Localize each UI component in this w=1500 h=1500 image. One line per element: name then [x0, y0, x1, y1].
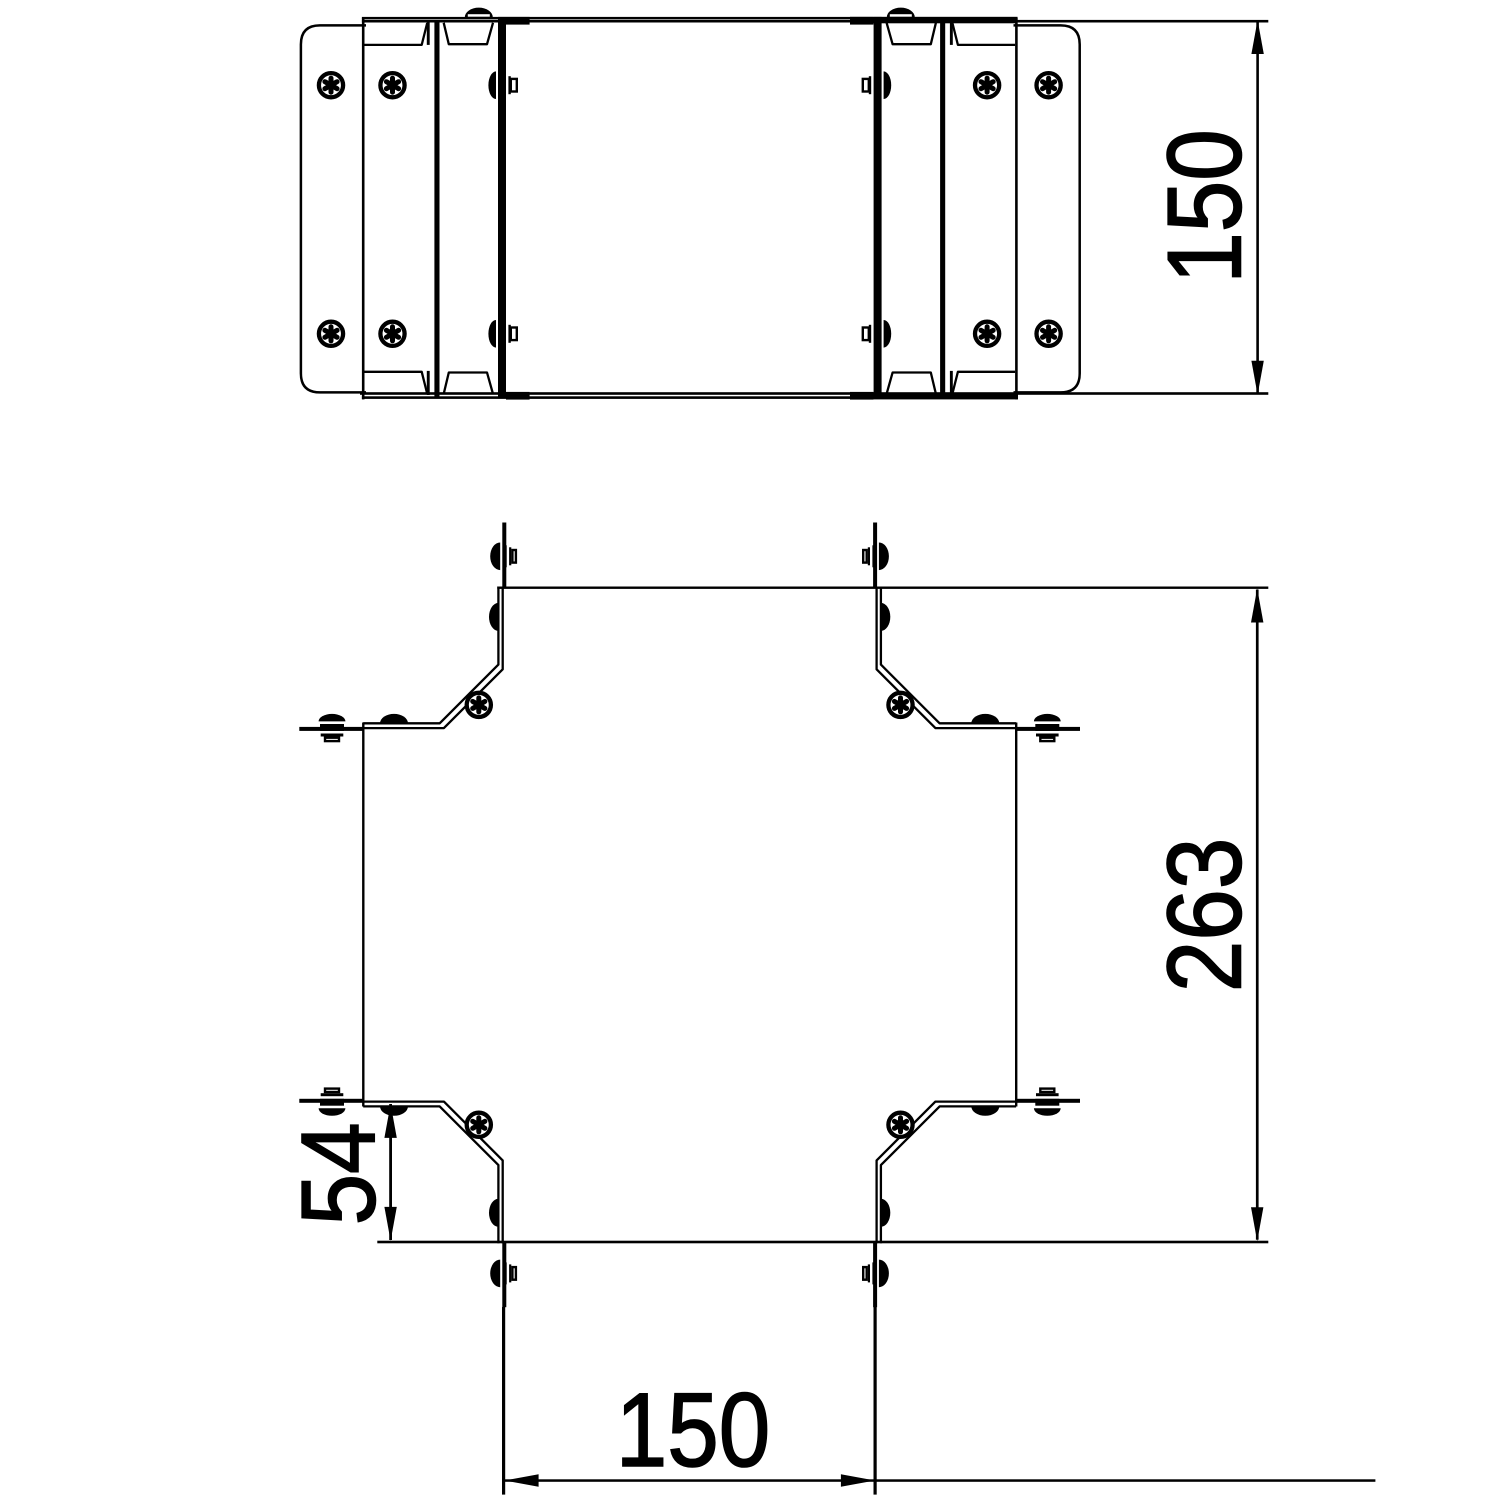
turnbuckle stem bottom-left	[502, 1242, 506, 1308]
bolt dome right arm south	[971, 1106, 999, 1115]
coupler plate left edge	[362, 18, 365, 400]
bottom tab left of right wall	[850, 392, 873, 400]
turnbuckle head left-bottom	[319, 1089, 346, 1116]
bolt dome on top edge right	[887, 8, 915, 18]
turnbuckle head right wall bottom	[863, 320, 891, 348]
bolt dome top arm west	[489, 603, 498, 631]
dim 54: arrow up	[384, 1104, 396, 1138]
cover bottom edge upper line + dim extension	[360, 392, 1268, 395]
bolt dome top arm east	[881, 603, 890, 631]
dim 263: dimension line	[1256, 590, 1259, 1240]
top tab right of left wall	[506, 17, 530, 25]
torx screw plate1 right bottom	[1037, 322, 1061, 346]
turnbuckle stem left-bottom	[299, 1099, 364, 1103]
dim 54: arrow down	[384, 1207, 396, 1241]
tray side wall right (thick bar)	[874, 17, 882, 397]
dim 150 bottom: dimension line	[504, 1479, 1375, 1482]
dim 263: arrow up	[1251, 589, 1263, 623]
turnbuckle head bottom-right	[863, 1260, 889, 1288]
cross top edge + dim extension	[497, 587, 1268, 589]
svg-text:150: 150	[616, 1372, 771, 1488]
junction fold line right bottom	[950, 371, 953, 395]
fold profile bottom-right outer	[881, 1106, 1016, 1243]
fold profile top-left outer	[363, 587, 498, 724]
turnbuckle stem bottom-right	[873, 1242, 877, 1308]
cross bottom edge + dim extensions	[377, 1241, 1268, 1244]
notch outline plate3 right top	[887, 23, 936, 44]
dim 150 bottom: extension line right	[874, 1307, 877, 1495]
turnbuckle head left-top	[319, 714, 346, 741]
torx screw plate2 left bottom	[380, 322, 404, 346]
dim 150 bottom: arrow left	[505, 1474, 539, 1487]
dim 150 bottom: arrow right	[841, 1474, 875, 1487]
svg-text:150: 150	[1146, 129, 1262, 284]
turnbuckle stem left-top	[299, 727, 364, 731]
dim 150 side: dimension line	[1256, 21, 1259, 394]
bolt dome bottom arm east	[881, 1199, 890, 1227]
tray side wall left (thick bar)	[498, 17, 506, 397]
fold profile bottom-left inner	[363, 1102, 503, 1244]
side plate left outer (rounded)	[301, 25, 366, 392]
merged bottom edge band right	[850, 393, 1018, 400]
turnbuckle stem right-top	[1016, 727, 1080, 731]
cover bottom edge lower line	[362, 396, 1018, 399]
fold profile top-right outer	[881, 587, 1016, 724]
dim 54: dimension line	[389, 1104, 392, 1240]
cover top edge upper line	[362, 17, 1018, 19]
junction fold line left top	[427, 21, 430, 45]
junction fold line left bottom	[427, 371, 430, 395]
bolt dome left arm south	[380, 1106, 408, 1115]
bolt dome on top edge left	[465, 8, 493, 18]
turnbuckle head left wall bottom	[488, 320, 516, 348]
dim 150 bottom: extension line left	[502, 1307, 505, 1495]
cross right tip edge	[1015, 723, 1017, 1107]
turnbuckle head bottom-left	[490, 1260, 516, 1288]
turnbuckle head right-top	[1034, 714, 1061, 741]
torx screw plate2 left top	[380, 73, 404, 97]
fold profile bottom-left outer	[363, 1106, 498, 1243]
top tab left of right wall	[850, 17, 873, 25]
torx screw plate2 right top	[975, 73, 999, 97]
notch outline plate3 left bottom	[444, 373, 493, 394]
torx screw corner bottom-left	[467, 1113, 491, 1137]
fold profile top-left inner	[363, 587, 503, 729]
turnbuckle head left wall top	[488, 71, 516, 99]
bolt dome left arm north	[380, 714, 408, 723]
notch outline plate3 right bottom	[887, 373, 936, 394]
notch outline plate2 right top	[952, 23, 1015, 45]
dim 150 side: arrow down	[1251, 361, 1263, 395]
merged top edge band right	[850, 17, 1018, 23]
turnbuckle head right wall top	[863, 71, 891, 99]
turnbuckle head top-right	[863, 543, 889, 571]
torx screw corner top-left	[467, 693, 491, 717]
svg-text:54: 54	[280, 1122, 396, 1225]
plate fold edge left (thick)	[434, 20, 439, 397]
notch outline plate2 left top	[365, 23, 428, 45]
svg-text:263: 263	[1146, 838, 1262, 993]
turnbuckle stem right-bottom	[1016, 1099, 1080, 1103]
side plate right outer (rounded)	[1014, 25, 1080, 392]
notch outline plate2 right bottom	[952, 372, 1015, 394]
torx screw corner top-right	[888, 693, 912, 717]
turnbuckle stem top-left	[502, 523, 506, 589]
torx screw plate1 right top	[1037, 73, 1061, 97]
torx screw plate1 left bottom	[319, 322, 343, 346]
turnbuckle head top-left	[490, 543, 516, 571]
dim 263: arrow down	[1251, 1207, 1263, 1241]
bolt dome bottom arm west	[489, 1199, 498, 1227]
torx screw plate2 right bottom	[975, 322, 999, 346]
coupler plate right edge	[1015, 18, 1018, 400]
turnbuckle head right-bottom	[1034, 1089, 1061, 1116]
bottom tab right of left wall	[506, 392, 530, 400]
cross left tip edge	[362, 723, 364, 1107]
cover top edge lower line + dim extension	[362, 20, 1268, 23]
junction fold line right top	[950, 21, 953, 45]
plate fold edge right (thick)	[940, 20, 945, 397]
notch outline plate2 left bottom	[365, 372, 428, 394]
fold profile top-right inner	[877, 587, 1017, 729]
notch outline plate3 left top	[444, 23, 493, 44]
torx screw plate1 left top	[319, 73, 343, 97]
torx screw corner bottom-right	[888, 1113, 912, 1137]
turnbuckle stem top-right	[873, 523, 877, 589]
fold profile bottom-right inner	[877, 1102, 1017, 1244]
bolt dome right arm north	[971, 714, 999, 723]
dim 150 side: arrow up	[1251, 20, 1263, 54]
